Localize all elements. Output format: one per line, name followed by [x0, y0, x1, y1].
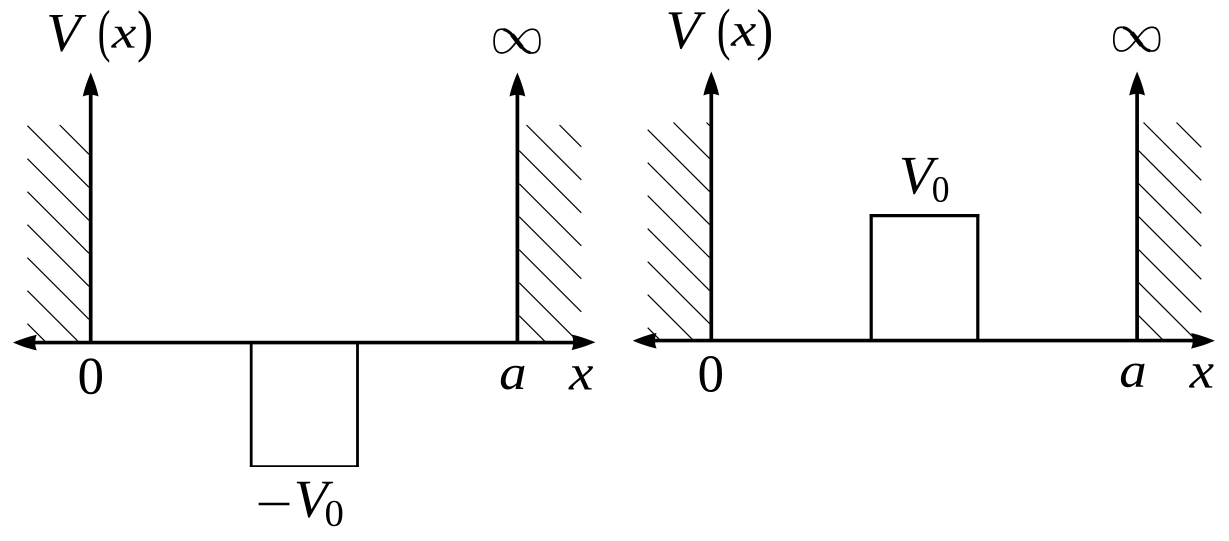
left diagram: infinity label [494, 29, 540, 53]
right diagram: origin label 0 [700, 356, 722, 392]
right diagram: a label [1121, 363, 1145, 387]
left diagram: potential well right edge [356, 341, 359, 467]
right diagram: V(x) axis label [668, 8, 771, 60]
left diagram: x-axis shaft [30, 341, 576, 345]
left diagram: x-axis right arrowhead [572, 335, 596, 351]
right diagram: potential barrier right edge [976, 214, 979, 341]
left diagram: x-axis left arrowhead [13, 335, 37, 351]
left diagram: left wall hatching [27, 125, 89, 342]
right diagram: infinity label [1114, 27, 1160, 51]
right diagram: x label [1189, 364, 1214, 387]
left diagram: a label [501, 366, 525, 390]
right diagram: V0 barrier height label [902, 158, 948, 202]
left diagram: right wall shaft at x=a [516, 93, 520, 344]
right diagram: y-axis arrowhead [703, 72, 719, 96]
right diagram: x-axis shaft [650, 339, 1196, 343]
right diagram: x-axis right arrowhead [1191, 333, 1215, 349]
right diagram: potential barrier top [870, 214, 980, 217]
right diagram: potential barrier left edge [870, 214, 873, 341]
right diagram: right wall shaft at x=a [1135, 92, 1139, 342]
right diagram: right wall hatching [1139, 123, 1202, 340]
left diagram: x label [568, 366, 593, 389]
right diagram: left wall hatching [648, 123, 710, 340]
left diagram: origin label 0 [80, 358, 102, 394]
right diagram: y-axis shaft [709, 92, 713, 342]
left diagram: potential well left edge [250, 341, 253, 467]
right diagram: right wall arrowhead [1129, 72, 1145, 96]
left diagram: -V0 well depth label [259, 482, 343, 527]
right diagram: x-axis left arrowhead [633, 333, 657, 349]
left diagram: right wall arrowhead [510, 73, 526, 97]
left diagram: potential well bottom [250, 465, 359, 467]
left diagram: y-axis shaft [89, 93, 93, 344]
left diagram: y-axis arrowhead [83, 73, 99, 97]
left diagram: V(x) axis label [49, 10, 151, 63]
left diagram: right wall hatching [519, 125, 581, 342]
